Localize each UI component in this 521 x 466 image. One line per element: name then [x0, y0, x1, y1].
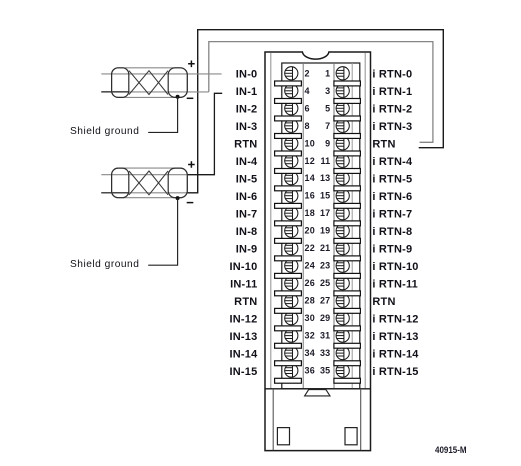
svg-text:26: 26 — [305, 278, 315, 288]
svg-text:i RTN-5: i RTN-5 — [372, 174, 412, 186]
svg-text:RTN: RTN — [234, 296, 257, 308]
svg-text:IN-6: IN-6 — [236, 191, 258, 203]
svg-text:6: 6 — [305, 103, 310, 113]
svg-text:13: 13 — [320, 173, 330, 183]
svg-text:12: 12 — [305, 156, 315, 166]
svg-text:i RTN-11: i RTN-11 — [372, 279, 418, 291]
svg-text:i RTN-3: i RTN-3 — [372, 121, 412, 133]
svg-text:32: 32 — [305, 331, 315, 341]
svg-text:i RTN-9: i RTN-9 — [372, 244, 412, 256]
svg-text:20: 20 — [305, 226, 315, 236]
svg-text:IN-4: IN-4 — [236, 156, 258, 168]
svg-text:40915-M: 40915-M — [435, 444, 467, 455]
svg-text:IN-14: IN-14 — [229, 348, 258, 360]
svg-text:7: 7 — [325, 121, 330, 131]
svg-text:RTN: RTN — [372, 139, 395, 151]
svg-text:15: 15 — [320, 191, 330, 201]
svg-text:30: 30 — [305, 313, 315, 323]
svg-text:1: 1 — [325, 68, 330, 78]
svg-text:IN-15: IN-15 — [229, 366, 257, 378]
svg-text:RTN: RTN — [372, 296, 395, 308]
svg-text:36: 36 — [305, 366, 315, 376]
svg-text:IN-11: IN-11 — [230, 279, 257, 291]
svg-text:35: 35 — [320, 366, 330, 376]
svg-text:8: 8 — [305, 121, 310, 131]
svg-text:RTN: RTN — [234, 139, 257, 151]
svg-text:i RTN-12: i RTN-12 — [372, 314, 418, 326]
svg-text:16: 16 — [305, 191, 315, 201]
svg-text:i RTN-10: i RTN-10 — [372, 261, 418, 273]
svg-text:Shield ground: Shield ground — [70, 126, 139, 137]
svg-text:i RTN-4: i RTN-4 — [372, 156, 413, 168]
svg-text:i RTN-15: i RTN-15 — [372, 366, 418, 378]
svg-text:31: 31 — [320, 331, 330, 341]
svg-text:Shield ground: Shield ground — [70, 259, 139, 270]
svg-text:29: 29 — [320, 313, 330, 323]
svg-text:18: 18 — [305, 208, 315, 218]
svg-text:IN-8: IN-8 — [236, 226, 258, 238]
svg-text:i RTN-0: i RTN-0 — [372, 69, 412, 81]
svg-text:5: 5 — [325, 103, 330, 113]
svg-text:10: 10 — [305, 138, 315, 148]
svg-text:i RTN-8: i RTN-8 — [372, 226, 412, 238]
svg-text:19: 19 — [320, 226, 330, 236]
svg-text:IN-12: IN-12 — [229, 314, 257, 326]
svg-text:IN-3: IN-3 — [236, 121, 258, 133]
svg-text:28: 28 — [305, 296, 315, 306]
svg-text:IN-2: IN-2 — [236, 104, 258, 116]
svg-text:i RTN-13: i RTN-13 — [372, 331, 418, 343]
svg-text:IN-1: IN-1 — [236, 86, 258, 98]
svg-text:2: 2 — [305, 68, 310, 78]
svg-text:4: 4 — [305, 86, 310, 96]
svg-text:IN-13: IN-13 — [229, 331, 257, 343]
svg-text:14: 14 — [305, 173, 315, 183]
svg-text:i RTN-2: i RTN-2 — [372, 104, 412, 116]
svg-text:11: 11 — [320, 156, 330, 166]
svg-text:IN-7: IN-7 — [236, 209, 258, 221]
svg-text:9: 9 — [325, 138, 330, 148]
svg-text:i RTN-14: i RTN-14 — [372, 348, 419, 360]
svg-text:i RTN-7: i RTN-7 — [372, 209, 412, 221]
svg-text:25: 25 — [320, 278, 330, 288]
svg-text:33: 33 — [320, 348, 330, 358]
svg-text:IN-5: IN-5 — [236, 174, 258, 186]
svg-text:23: 23 — [320, 261, 330, 271]
svg-text:27: 27 — [320, 296, 330, 306]
svg-text:IN-10: IN-10 — [229, 261, 257, 273]
svg-text:22: 22 — [305, 243, 315, 253]
svg-text:IN-9: IN-9 — [236, 244, 258, 256]
svg-text:24: 24 — [305, 261, 315, 271]
svg-text:i RTN-6: i RTN-6 — [372, 191, 412, 203]
svg-text:17: 17 — [320, 208, 330, 218]
svg-text:34: 34 — [305, 348, 315, 358]
svg-text:3: 3 — [325, 86, 330, 96]
svg-text:i RTN-1: i RTN-1 — [372, 86, 412, 98]
svg-text:21: 21 — [320, 243, 330, 253]
svg-text:IN-0: IN-0 — [236, 69, 258, 81]
